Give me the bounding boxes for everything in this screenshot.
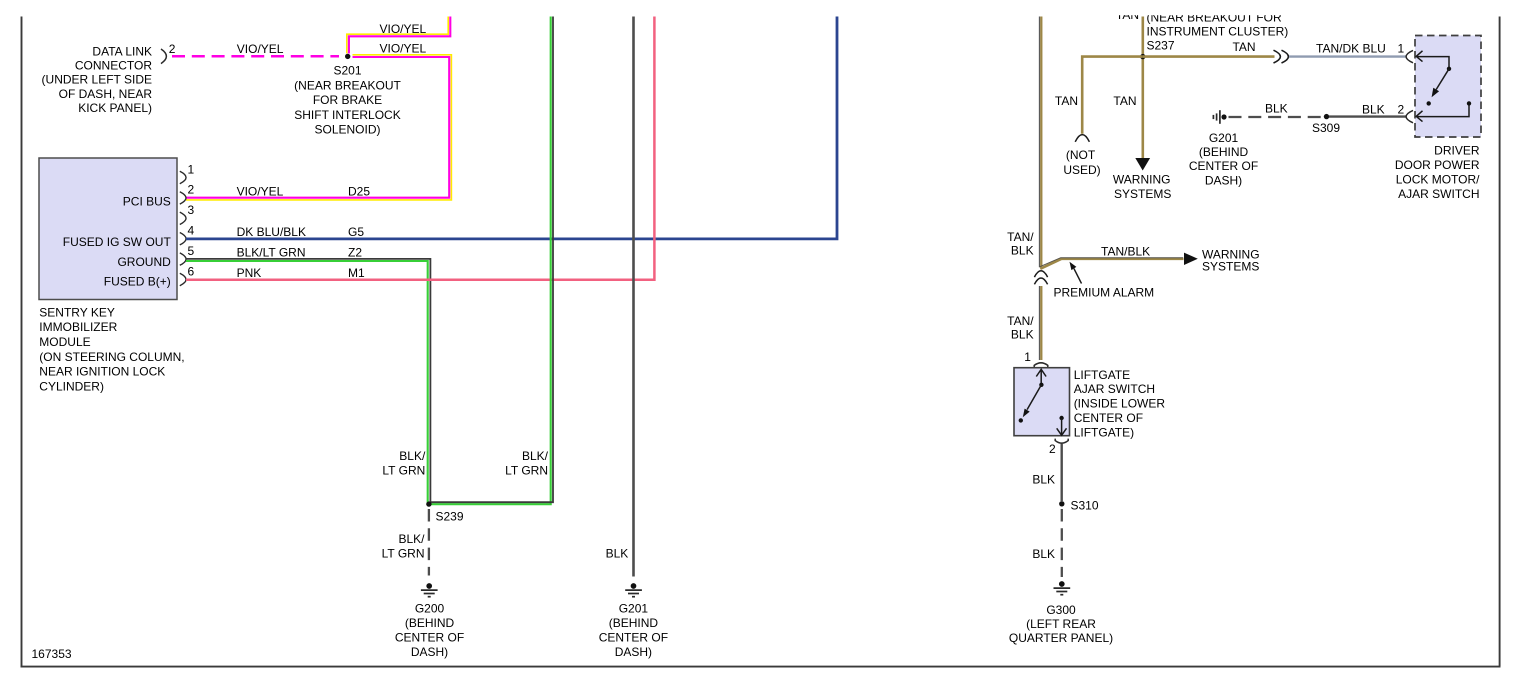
ground G200 label [395, 602, 464, 660]
svg-text:(NEAR BREAKOUT: (NEAR BREAKOUT [294, 78, 401, 92]
svg-text:LIFTGATE): LIFTGATE) [1074, 425, 1134, 439]
svg-text:BLK/: BLK/ [399, 449, 426, 463]
svg-text:S237: S237 [1147, 38, 1175, 52]
liftgate pin 1 connector arc [1034, 363, 1048, 368]
border frame left [21, 17, 23, 667]
svg-text:BLK/LT GRN: BLK/LT GRN [237, 246, 306, 260]
svg-text:BLK: BLK [1032, 473, 1055, 487]
driver door switch internal pin1 lead [1416, 51, 1451, 71]
module name label [39, 305, 184, 393]
svg-text:KICK PANEL): KICK PANEL) [78, 101, 152, 115]
driver door switch internal pin2 lead [1416, 101, 1471, 121]
wire TAN/BLK down to liftgate ajar switch (black stripe) [1039, 286, 1041, 360]
svg-text:MODULE: MODULE [39, 335, 90, 349]
svg-text:TAN/BLK: TAN/BLK [1101, 244, 1150, 258]
svg-text:DASH): DASH) [1205, 173, 1242, 187]
wire BLK/LT GRN from module pin 5 (black stripe) [186, 259, 430, 503]
data link connector label [42, 45, 153, 115]
splice S201 node dot [345, 54, 350, 59]
svg-text:G201: G201 [1209, 131, 1239, 145]
svg-text:SENTRY KEY: SENTRY KEY [39, 305, 115, 319]
svg-text:PNK: PNK [237, 266, 262, 280]
svg-text:CENTER OF: CENTER OF [395, 631, 464, 645]
ground G201 behind dash symbol (horizontal) [1213, 110, 1226, 124]
wire BLK dashed from G201 to S309 [1229, 116, 1324, 118]
svg-text:CENTER OF: CENTER OF [1074, 411, 1143, 425]
svg-text:VIO/YEL: VIO/YEL [380, 22, 427, 36]
wire TAN right branch from S237 to connector [1143, 55, 1275, 58]
wire VIO/YEL from S201 to module pin 2 / D25 (violet) [186, 57, 449, 198]
svg-text:BLK/: BLK/ [522, 449, 549, 463]
module pin 6 connector arc [180, 273, 186, 285]
svg-text:167353: 167353 [32, 647, 72, 661]
svg-text:SHIFT INTERLOCK: SHIFT INTERLOCK [294, 108, 400, 122]
module pin 4 connector arc [180, 233, 186, 245]
svg-text:(UNDER LEFT SIDE: (UNDER LEFT SIDE [42, 73, 152, 87]
svg-text:(BEHIND: (BEHIND [609, 616, 659, 630]
svg-text:LOCK MOTOR/: LOCK MOTOR/ [1396, 173, 1480, 187]
svg-text:3: 3 [188, 203, 195, 217]
svg-text:SYSTEMS: SYSTEMS [1202, 259, 1259, 273]
svg-text:(LEFT REAR: (LEFT REAR [1026, 617, 1096, 631]
inline connector arcs below bend [1034, 271, 1047, 285]
liftgate ajar switch box [1014, 368, 1070, 436]
splice S239 node dot [426, 501, 431, 506]
svg-text:TAN: TAN [1113, 94, 1136, 108]
svg-text:LT GRN: LT GRN [382, 547, 425, 561]
wire BLK from S309 to driver door switch pin 2 [1329, 115, 1406, 117]
warning systems right arrow [1184, 253, 1198, 265]
driver door power lock motor / ajar switch box [1415, 36, 1481, 138]
warning systems down arrow [1135, 158, 1150, 171]
svg-text:BLK: BLK [1265, 102, 1288, 116]
wire BLK/LT GRN vertical from top (black stripe) [431, 17, 553, 503]
svg-text:S239: S239 [436, 509, 464, 523]
wire BLK vertical to G201 [632, 17, 635, 577]
svg-text:INSTRUMENT CLUSTER): INSTRUMENT CLUSTER) [1147, 25, 1289, 39]
wire BLK/LT GRN vertical from top (green) [431, 17, 551, 505]
ground G300 label [1009, 603, 1113, 645]
svg-text:NEAR IGNITION LOCK: NEAR IGNITION LOCK [39, 365, 165, 379]
splice S309 node dot [1324, 114, 1329, 119]
svg-text:BLK: BLK [1011, 328, 1034, 342]
wire VIO/YEL upper branch from S201 to top (violet) [349, 17, 450, 54]
svg-text:DASH): DASH) [615, 645, 652, 659]
liftgate switch internal pin1 lead with up arrow [1036, 369, 1046, 387]
svg-text:1: 1 [1024, 350, 1031, 364]
svg-text:FUSED IG SW OUT: FUSED IG SW OUT [63, 235, 172, 249]
svg-text:WARNING: WARNING [1113, 172, 1171, 186]
liftgate switch label [1074, 368, 1166, 440]
svg-text:LT GRN: LT GRN [505, 463, 548, 477]
svg-text:DATA LINK: DATA LINK [92, 45, 152, 59]
premium alarm callout arrow [1070, 262, 1082, 284]
wire VIO/YEL dashed from DLC to S201 [172, 55, 339, 58]
svg-text:CENTER OF: CENTER OF [1189, 159, 1258, 173]
wire BLK/LT GRN dashed to G200 [428, 509, 430, 576]
ground G201 symbol [625, 583, 642, 597]
svg-text:USED): USED) [1063, 163, 1100, 177]
svg-text:TAN: TAN [1232, 40, 1255, 54]
svg-text:DK BLU/BLK: DK BLU/BLK [237, 225, 306, 239]
svg-text:PCI BUS: PCI BUS [123, 195, 171, 209]
label BLK/LT GRN right vertical [505, 449, 549, 478]
driver door pin 2 connector arc [1406, 110, 1413, 122]
ground G200 symbol [421, 583, 438, 597]
svg-text:VIO/YEL: VIO/YEL [237, 42, 284, 56]
svg-text:SOLENOID): SOLENOID) [314, 123, 380, 137]
wire BLK/LT GRN from module pin 5 (green) [186, 261, 428, 503]
svg-text:DASH): DASH) [411, 645, 448, 659]
splice S237 node dot [1140, 54, 1145, 59]
wire TAN left branch from S237 to not-used [1082, 57, 1143, 134]
module pin 1 connector arc [180, 171, 186, 183]
svg-text:IMMOBILIZER: IMMOBILIZER [39, 320, 117, 334]
svg-text:FUSED B(+): FUSED B(+) [104, 274, 171, 288]
svg-text:BLK: BLK [1032, 547, 1055, 561]
svg-text:OF DASH, NEAR: OF DASH, NEAR [59, 87, 153, 101]
svg-text:(BEHIND: (BEHIND [1199, 145, 1249, 159]
inline connector symbol )) [1274, 50, 1289, 63]
svg-text:TAN/DK BLU: TAN/DK BLU [1316, 42, 1386, 56]
wire BLK dashed from S310 to G300 [1061, 509, 1063, 577]
svg-text:(INSIDE LOWER: (INSIDE LOWER [1074, 397, 1166, 411]
svg-text:2: 2 [169, 42, 176, 56]
instrument cluster breakout label (top, partially cropped) [1116, 8, 1288, 52]
driver door switch blade with arrow [1427, 69, 1450, 106]
svg-text:CYLINDER): CYLINDER) [39, 379, 104, 393]
module pin 2 connector arc [180, 192, 186, 204]
warning systems label right [1202, 248, 1260, 274]
ground G201 label [599, 602, 668, 660]
sentry key immobilizer module box [39, 158, 177, 300]
border frame right [1499, 17, 1501, 667]
liftgate switch internal pin2 lead with down arrow [1057, 416, 1067, 436]
svg-text:1: 1 [1398, 42, 1405, 56]
svg-text:D25: D25 [348, 184, 370, 198]
wire TAN/BLK down to liftgate ajar switch (tan) [1040, 286, 1042, 360]
wire BLK from liftgate pin 2 to S310 [1060, 444, 1062, 501]
svg-text:5: 5 [188, 244, 195, 258]
svg-text:1: 1 [188, 162, 195, 176]
svg-text:Z2: Z2 [348, 246, 362, 260]
data link connector pin 2 [161, 42, 176, 64]
wire TAN vertical through S237 to warning arrow [1142, 17, 1145, 159]
svg-text:S309: S309 [1312, 121, 1340, 135]
svg-text:VIO/YEL: VIO/YEL [380, 42, 427, 56]
svg-text:AJAR SWITCH: AJAR SWITCH [1074, 382, 1155, 396]
label BLK/LT GRN left of S239 [382, 449, 426, 478]
module pin 3 connector arc [180, 212, 186, 224]
not used label [1063, 148, 1100, 177]
svg-text:S201: S201 [333, 64, 361, 78]
svg-text:CENTER OF: CENTER OF [599, 631, 668, 645]
wire TAN/BLK vertical from top (tan) [1040, 17, 1042, 269]
svg-text:GROUND: GROUND [117, 255, 171, 269]
svg-text:G200: G200 [415, 602, 445, 616]
svg-text:BLK/: BLK/ [398, 532, 425, 546]
liftgate pin 2 connector arc [1055, 439, 1068, 444]
svg-text:FOR BRAKE: FOR BRAKE [313, 93, 382, 107]
wire TAN/DK BLU to driver door switch pin 1 [1289, 55, 1406, 57]
svg-text:QUARTER PANEL): QUARTER PANEL) [1009, 631, 1113, 645]
wire DK BLU/BLK from module pin 4 up right side [186, 17, 837, 239]
svg-text:G201: G201 [619, 602, 649, 616]
svg-text:G300: G300 [1046, 603, 1076, 617]
wire VIO/YEL upper branch from S201 to top (yellow stripe) [347, 17, 448, 54]
svg-text:TAN: TAN [1055, 94, 1078, 108]
ground G300 symbol [1054, 581, 1071, 595]
liftgate switch blade with arrow [1019, 385, 1042, 423]
wire TAN/BLK vertical from top (black stripe) [1039, 17, 1041, 268]
splice S310 node dot [1059, 501, 1064, 506]
driver door switch label [1395, 143, 1480, 201]
svg-text:CONNECTOR: CONNECTOR [75, 59, 152, 73]
svg-text:BLK: BLK [606, 547, 629, 561]
svg-text:4: 4 [188, 224, 195, 238]
svg-text:2: 2 [1398, 103, 1405, 117]
driver door pin 1 connector arc [1406, 50, 1413, 62]
svg-text:2: 2 [188, 183, 195, 197]
wire VIO/YEL from S201 to module pin 2 / D25 (yellow stripe) [186, 55, 451, 200]
ground G201 behind dash label [1189, 131, 1258, 188]
svg-text:VIO/YEL: VIO/YEL [237, 184, 284, 198]
label TAN/BLK lower [1007, 314, 1034, 342]
border frame bottom [21, 666, 1501, 668]
svg-text:DRIVER: DRIVER [1434, 143, 1480, 157]
warning systems label center [1113, 172, 1171, 201]
svg-text:TAN/: TAN/ [1007, 314, 1034, 328]
svg-text:DOOR POWER: DOOR POWER [1395, 158, 1480, 172]
top crop overlay [0, 0, 1521, 15]
svg-text:G5: G5 [348, 225, 364, 239]
svg-text:LIFTGATE: LIFTGATE [1074, 368, 1130, 382]
svg-text:(BEHIND: (BEHIND [405, 616, 455, 630]
svg-text:(NOT: (NOT [1066, 148, 1096, 162]
svg-text:(ON STEERING COLUMN,: (ON STEERING COLUMN, [39, 350, 184, 364]
module pin 5 connector arc [180, 253, 186, 265]
wire TAN/BLK branch to warning systems [1040, 258, 1184, 269]
svg-text:2: 2 [1049, 442, 1056, 456]
svg-text:PREMIUM ALARM: PREMIUM ALARM [1054, 286, 1155, 300]
splice S201 label [294, 64, 401, 137]
svg-text:BLK: BLK [1011, 244, 1034, 258]
wire PNK from module pin 6 up [186, 17, 654, 280]
svg-text:AJAR SWITCH: AJAR SWITCH [1398, 187, 1479, 201]
svg-text:S310: S310 [1071, 498, 1099, 512]
label BLK/LT GRN dashed [382, 532, 426, 561]
svg-text:BLK: BLK [1362, 103, 1385, 117]
svg-text:TAN/: TAN/ [1007, 230, 1034, 244]
not used terminal arc [1075, 135, 1089, 142]
svg-text:SYSTEMS: SYSTEMS [1114, 187, 1171, 201]
svg-text:M1: M1 [348, 266, 365, 280]
svg-text:LT GRN: LT GRN [382, 463, 425, 477]
svg-text:6: 6 [188, 264, 195, 278]
label TAN/BLK upper [1007, 230, 1034, 258]
